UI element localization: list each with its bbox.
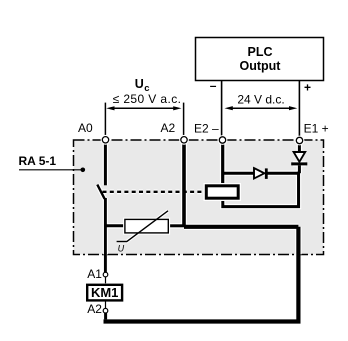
svg-text:A2: A2	[87, 302, 102, 316]
svg-text:+: +	[304, 81, 311, 95]
svg-text:–: –	[210, 79, 217, 93]
svg-text:E1 +: E1 +	[304, 121, 329, 135]
svg-text:E2 –: E2 –	[194, 121, 219, 135]
svg-text:A0: A0	[78, 121, 93, 135]
svg-text:U: U	[135, 77, 144, 91]
svg-text:A2: A2	[161, 121, 176, 135]
svg-text:U: U	[118, 244, 125, 254]
svg-text:Output: Output	[240, 59, 282, 73]
svg-text:RA 5-1: RA 5-1	[19, 154, 57, 168]
svg-text:24 V d.c.: 24 V d.c.	[237, 92, 284, 106]
svg-text:KM1: KM1	[91, 285, 118, 300]
svg-text:PLC: PLC	[248, 45, 273, 59]
svg-text:A1: A1	[87, 267, 102, 281]
svg-text:≤ 250 V a.c.: ≤ 250 V a.c.	[113, 92, 182, 106]
